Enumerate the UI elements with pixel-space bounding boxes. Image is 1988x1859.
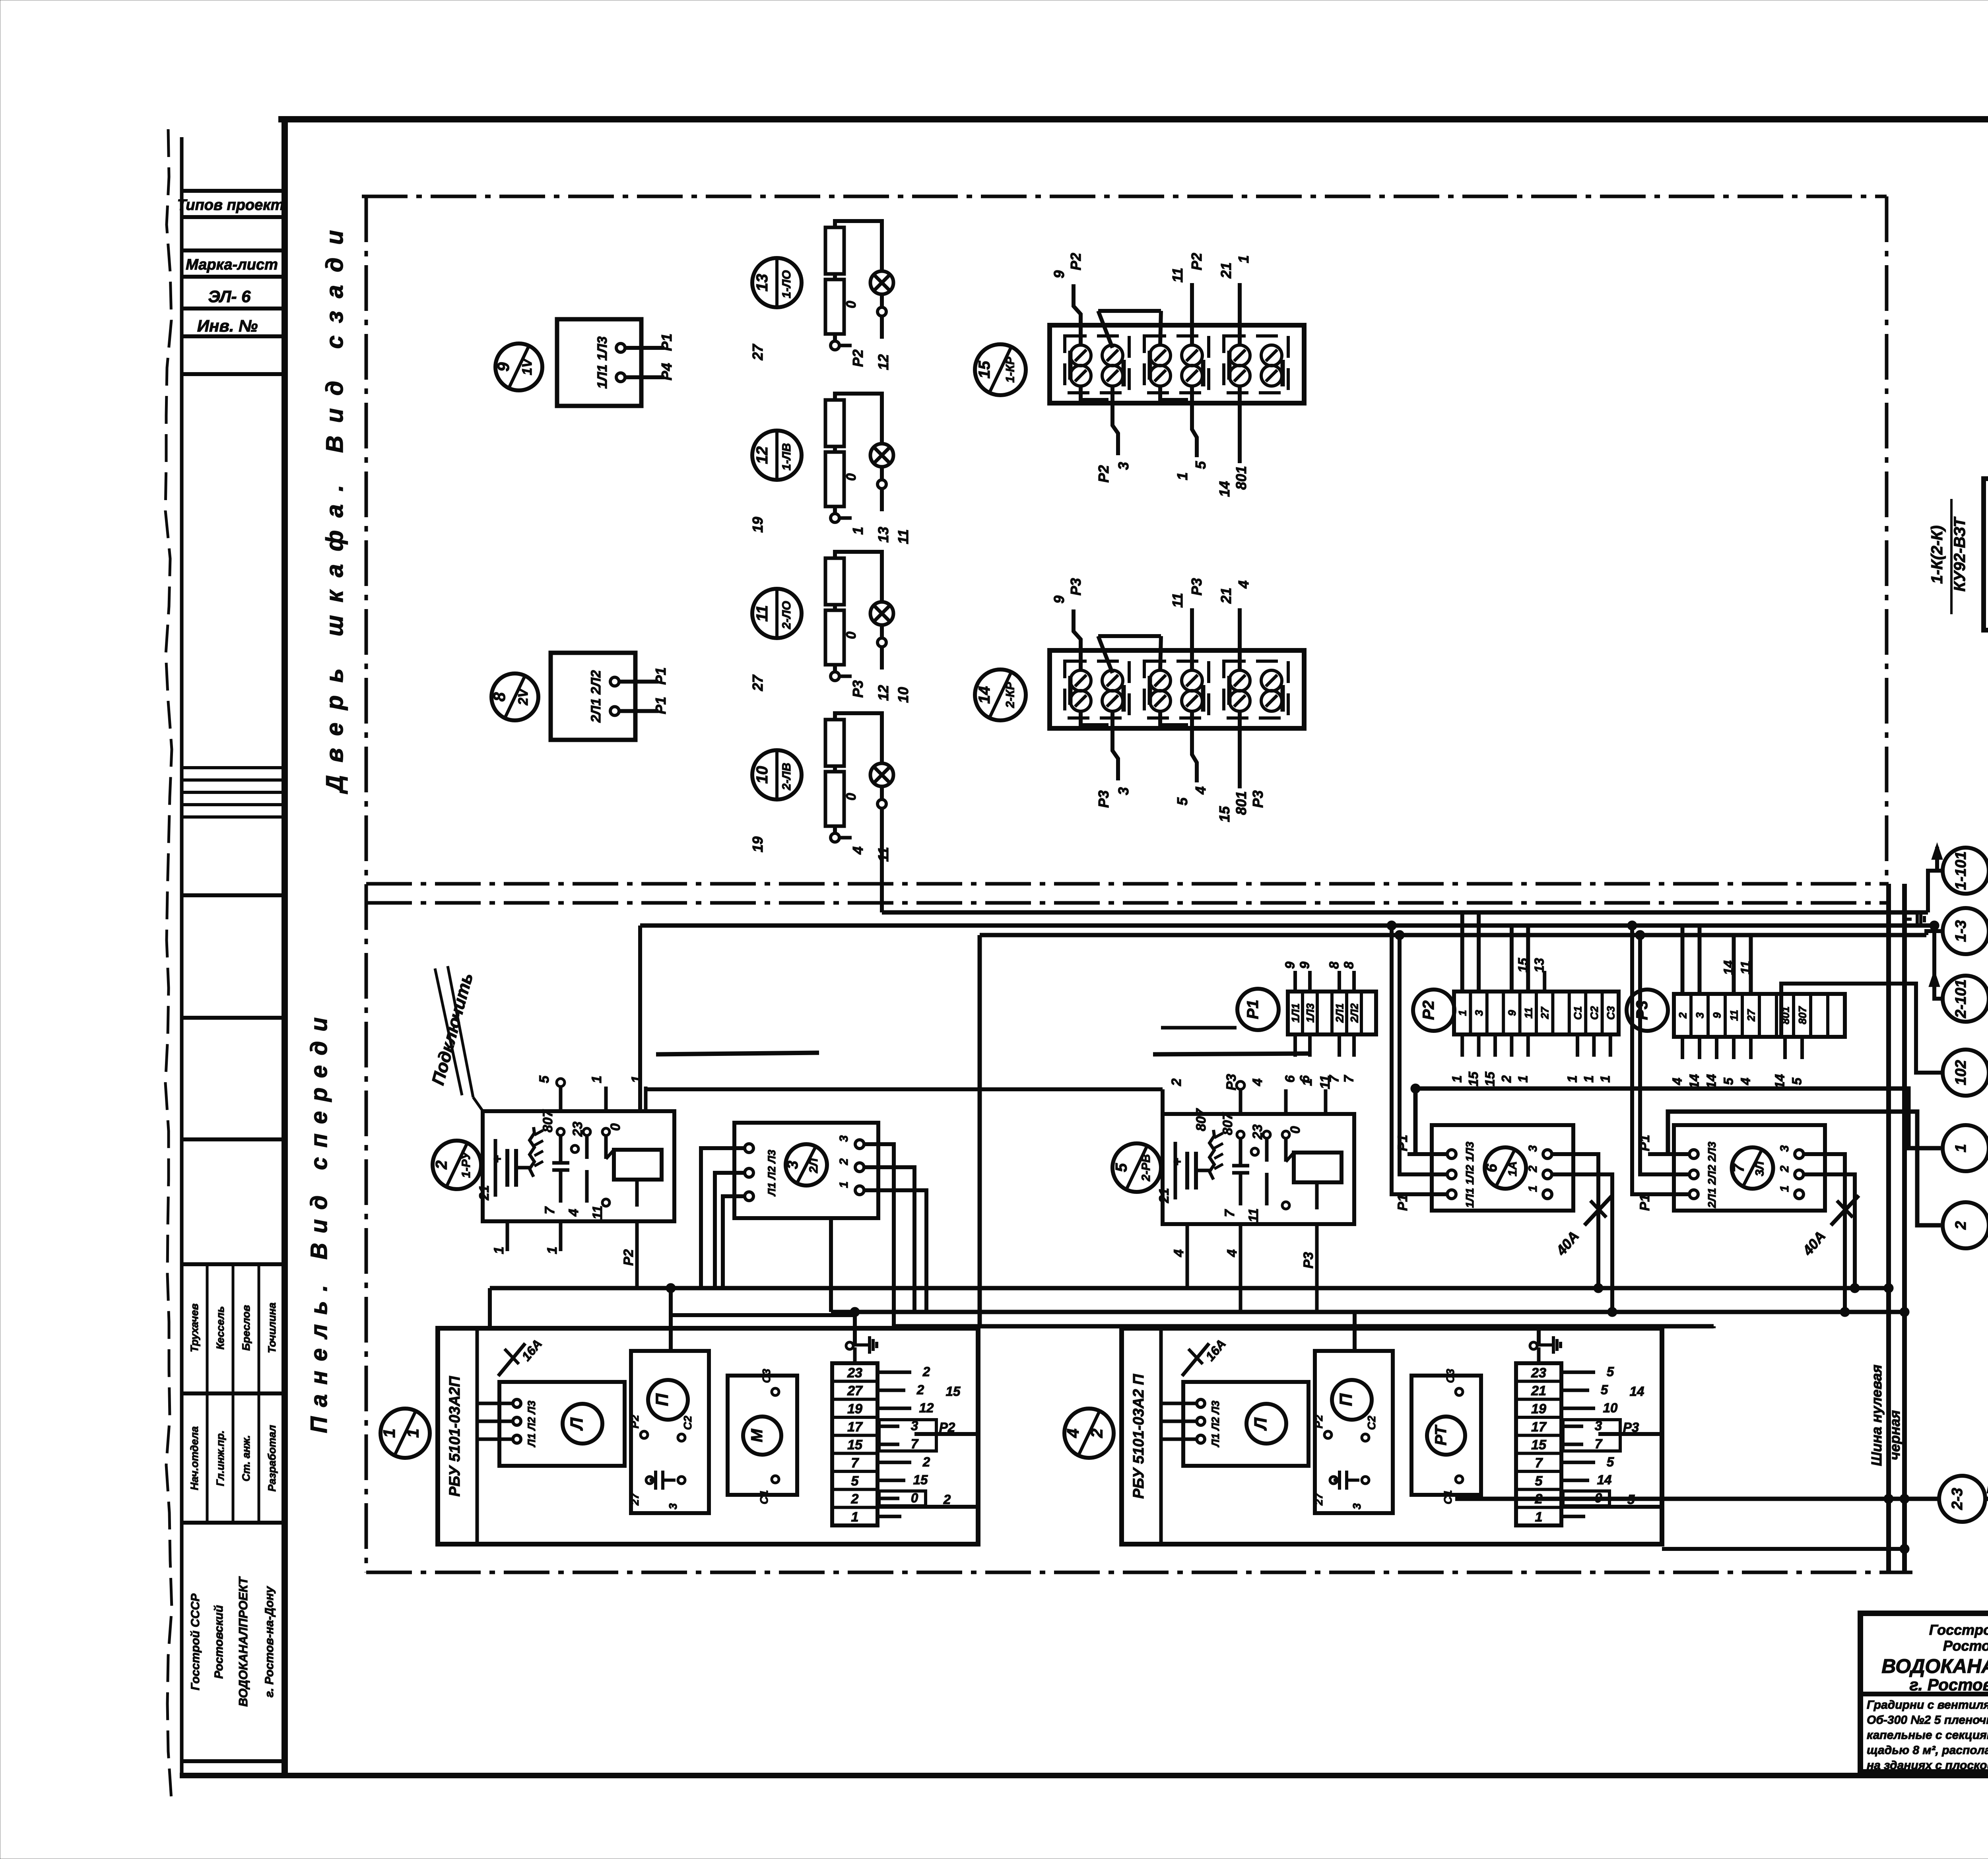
svg-text:С1: С1 — [1572, 1006, 1584, 1020]
svg-text:2: 2 — [1499, 1075, 1514, 1083]
svg-text:7: 7 — [1535, 1455, 1543, 1471]
svg-text:1: 1 — [589, 1076, 604, 1083]
svg-text:1Л1 1Л3: 1Л1 1Л3 — [595, 336, 610, 389]
svg-text:27: 27 — [1539, 1006, 1551, 1019]
svg-text:Р2: Р2 — [1420, 1001, 1437, 1020]
svg-text:12: 12 — [919, 1400, 934, 1415]
svg-text:3: 3 — [667, 1503, 679, 1510]
svg-text:щадью 8 м², располагаемые: щадью 8 м², располагаемые — [1867, 1744, 1988, 1757]
svg-text:П: П — [652, 1393, 672, 1406]
svg-text:9: 9 — [1711, 1012, 1723, 1018]
svg-text:23: 23 — [570, 1122, 585, 1137]
svg-text:Панель. Вид спереди: Панель. Вид спереди — [306, 1008, 332, 1433]
svg-text:1: 1 — [1565, 1075, 1580, 1083]
svg-text:23: 23 — [847, 1365, 862, 1380]
svg-text:5: 5 — [1192, 461, 1209, 469]
svg-text:3: 3 — [1778, 1145, 1791, 1152]
svg-text:РБУ 5101-03А2 П: РБУ 5101-03А2 П — [1130, 1374, 1147, 1499]
svg-text:12: 12 — [875, 354, 891, 370]
svg-text:черная: черная — [1887, 1410, 1903, 1460]
svg-text:27: 27 — [629, 1492, 641, 1506]
svg-text:801: 801 — [1233, 791, 1249, 815]
svg-text:С2: С2 — [681, 1416, 694, 1430]
svg-text:Ст. анж.: Ст. анж. — [240, 1435, 252, 1482]
svg-text:7: 7 — [1342, 1075, 1356, 1083]
svg-text:2: 2 — [1169, 1078, 1184, 1086]
svg-text:на зданиях с плоской кровлей: на зданиях с плоской кровлей — [1867, 1759, 1988, 1772]
svg-text:Шина нулевая: Шина нулевая — [1868, 1364, 1885, 1466]
svg-text:15: 15 — [913, 1473, 928, 1487]
svg-text:27: 27 — [749, 674, 766, 691]
svg-text:15: 15 — [976, 361, 993, 378]
svg-text:14: 14 — [1216, 481, 1233, 497]
svg-text:Р3: Р3 — [1301, 1252, 1316, 1269]
svg-text:5: 5 — [1607, 1364, 1614, 1379]
svg-text:2: 2 — [1526, 1165, 1540, 1172]
svg-text:2-101: 2-101 — [1953, 979, 1969, 1018]
svg-text:Р3: Р3 — [1250, 790, 1266, 808]
svg-text:0: 0 — [844, 473, 859, 481]
svg-text:3: 3 — [1473, 1010, 1485, 1016]
svg-text:15: 15 — [1216, 806, 1233, 822]
svg-text:2Л1: 2Л1 — [1334, 1003, 1346, 1023]
svg-text:Р2: Р2 — [850, 349, 866, 367]
svg-text:10: 10 — [895, 687, 911, 703]
svg-text:21: 21 — [1157, 1188, 1172, 1203]
svg-text:С2: С2 — [1365, 1416, 1378, 1430]
svg-text:3: 3 — [1115, 462, 1132, 470]
svg-text:Типов проект.: Типов проект. — [177, 197, 288, 213]
svg-text:8: 8 — [490, 692, 509, 702]
svg-text:ЭЛ- 6: ЭЛ- 6 — [208, 287, 251, 306]
svg-text:3: 3 — [784, 1160, 801, 1169]
svg-text:2: 2 — [943, 1492, 951, 1507]
svg-text:1: 1 — [380, 1428, 398, 1438]
svg-text:1: 1 — [491, 1247, 507, 1254]
svg-text:2-ЛВ: 2-ЛВ — [780, 763, 793, 791]
svg-text:5: 5 — [537, 1075, 552, 1083]
svg-text:17: 17 — [847, 1419, 863, 1434]
svg-text:2: 2 — [916, 1382, 924, 1397]
svg-text:5: 5 — [1601, 1382, 1608, 1397]
svg-text:Кессель: Кессель — [214, 1306, 226, 1349]
svg-text:Госстрой СССР: Госстрой СССР — [1929, 1622, 1988, 1638]
svg-text:0: 0 — [911, 1490, 918, 1505]
svg-text:1: 1 — [545, 1247, 560, 1254]
svg-text:1Л1 1Л2 1Л3: 1Л1 1Л2 1Л3 — [1464, 1141, 1476, 1208]
svg-text:9: 9 — [1506, 1010, 1518, 1016]
svg-text:С2: С2 — [1588, 1006, 1600, 1020]
svg-text:4: 4 — [1192, 786, 1209, 795]
svg-text:Марка-лист: Марка-лист — [186, 256, 278, 273]
svg-text:4: 4 — [850, 846, 866, 855]
svg-text:С3: С3 — [1444, 1369, 1456, 1383]
svg-text:ВОДОКАНАЛПРОЕКТ: ВОДОКАНАЛПРОЕКТ — [236, 1576, 250, 1707]
svg-text:1: 1 — [1778, 1186, 1791, 1192]
svg-text:3: 3 — [1526, 1145, 1540, 1152]
svg-text:19: 19 — [749, 517, 766, 533]
svg-text:4: 4 — [1225, 1249, 1240, 1257]
svg-text:1: 1 — [1174, 472, 1190, 480]
svg-text:9: 9 — [1051, 270, 1067, 278]
svg-text:1: 1 — [837, 1182, 850, 1188]
svg-text:0: 0 — [844, 793, 859, 800]
svg-text:3Л: 3Л — [1753, 1161, 1767, 1176]
svg-text:2: 2 — [922, 1364, 930, 1379]
svg-text:14: 14 — [1630, 1384, 1644, 1399]
svg-text:Р1: Р1 — [1244, 1000, 1262, 1019]
svg-text:Р4: Р4 — [658, 363, 675, 380]
svg-text:5: 5 — [1174, 797, 1190, 805]
svg-text:9: 9 — [1297, 961, 1312, 969]
svg-text:Р2: Р2 — [1068, 253, 1084, 270]
svg-text:Р3: Р3 — [1095, 790, 1112, 808]
svg-text:27: 27 — [1312, 1492, 1325, 1506]
svg-text:0: 0 — [844, 631, 859, 639]
svg-text:2V: 2V — [516, 687, 531, 706]
svg-text:7: 7 — [911, 1436, 919, 1451]
svg-text:9: 9 — [494, 362, 513, 372]
svg-text:1: 1 — [1450, 1075, 1464, 1083]
svg-text:19: 19 — [1531, 1401, 1546, 1417]
svg-text:1: 1 — [851, 1510, 859, 1525]
svg-text:0: 0 — [608, 1123, 623, 1131]
svg-text:807: 807 — [1194, 1108, 1209, 1131]
svg-text:0: 0 — [844, 301, 859, 308]
svg-text:2-ЛО: 2-ЛО — [780, 601, 793, 630]
svg-text:11: 11 — [1169, 268, 1186, 282]
svg-text:2: 2 — [1953, 1221, 1969, 1230]
svg-text:Р3: Р3 — [1188, 578, 1205, 596]
svg-text:г. Ростов-на-Дону: г. Ростов-на-Дону — [263, 1586, 276, 1698]
svg-text:21: 21 — [477, 1185, 492, 1201]
svg-text:С3: С3 — [1605, 1006, 1617, 1020]
svg-text:2Л1 2Л2: 2Л1 2Л2 — [588, 670, 604, 723]
svg-text:Л1 Л2 Л3: Л1 Л2 Л3 — [526, 1401, 538, 1448]
svg-text:807: 807 — [540, 1109, 555, 1133]
svg-text:3: 3 — [1694, 1012, 1706, 1018]
svg-text:7: 7 — [1731, 1163, 1747, 1172]
svg-text:1: 1 — [1235, 255, 1252, 263]
svg-text:12: 12 — [875, 685, 891, 701]
svg-text:Р2: Р2 — [629, 1415, 641, 1428]
svg-text:Р1: Р1 — [1637, 1194, 1652, 1211]
svg-text:1: 1 — [1598, 1075, 1612, 1083]
svg-text:2: 2 — [1778, 1165, 1791, 1172]
svg-text:4: 4 — [1670, 1078, 1685, 1085]
svg-text:г. Ростов-на-Дону: г. Ростов-на-Дону — [1910, 1675, 1988, 1694]
svg-text:ВОДОКАНАЛПРОЕКТ: ВОДОКАНАЛПРОЕКТ — [1881, 1655, 1988, 1677]
svg-text:11: 11 — [753, 605, 771, 622]
svg-text:2-3: 2-3 — [1949, 1488, 1966, 1510]
svg-text:2-РВ: 2-РВ — [1140, 1154, 1153, 1182]
svg-text:11: 11 — [590, 1205, 605, 1219]
svg-text:27: 27 — [847, 1384, 863, 1399]
svg-text:РТ: РТ — [1432, 1424, 1450, 1446]
svg-text:1Л1: 1Л1 — [1290, 1003, 1302, 1023]
svg-text:2: 2 — [837, 1158, 850, 1165]
svg-text:С1: С1 — [758, 1490, 770, 1504]
svg-text:5: 5 — [1535, 1473, 1543, 1488]
svg-text:1: 1 — [1581, 1075, 1596, 1083]
svg-text:Инв. №: Инв. № — [197, 316, 258, 335]
svg-text:5: 5 — [1112, 1163, 1130, 1172]
svg-text:1: 1 — [850, 527, 866, 535]
svg-text:10: 10 — [1603, 1400, 1618, 1415]
svg-text:Госстрой СССР: Госстрой СССР — [189, 1593, 202, 1690]
svg-text:Л: Л — [567, 1417, 586, 1431]
svg-text:14: 14 — [1597, 1473, 1612, 1487]
svg-text:3: 3 — [837, 1135, 850, 1142]
svg-text:19: 19 — [749, 836, 766, 852]
svg-text:Л1 Л2 Л3: Л1 Л2 Л3 — [1209, 1401, 1221, 1448]
svg-text:Нач.отдела: Нач.отдела — [188, 1426, 200, 1490]
svg-text:Гл.инж.пр.: Гл.инж.пр. — [214, 1430, 226, 1486]
svg-text:3: 3 — [1115, 787, 1132, 795]
svg-text:15: 15 — [1466, 1071, 1481, 1086]
svg-text:М: М — [748, 1428, 766, 1442]
svg-text:15: 15 — [1531, 1438, 1547, 1453]
svg-text:2: 2 — [922, 1454, 930, 1469]
svg-text:Р2: Р2 — [1095, 465, 1112, 483]
svg-text:Об-300 №2 5 пленочные и: Об-300 №2 5 пленочные и — [1867, 1713, 1988, 1727]
svg-text:Р1: Р1 — [652, 667, 669, 685]
svg-text:Точилина: Точилина — [266, 1302, 278, 1353]
svg-text:4: 4 — [1171, 1249, 1186, 1257]
svg-text:23: 23 — [1531, 1365, 1546, 1380]
svg-text:Р3: Р3 — [1224, 1074, 1239, 1091]
svg-text:8: 8 — [1342, 961, 1356, 969]
svg-text:Ростовский: Ростовский — [1943, 1638, 1988, 1654]
svg-text:3: 3 — [1351, 1503, 1363, 1510]
svg-text:Р1: Р1 — [1395, 1135, 1410, 1151]
svg-text:1: 1 — [1526, 1186, 1540, 1192]
svg-text:Р3: Р3 — [1068, 578, 1084, 596]
svg-text:1-РУ: 1-РУ — [460, 1151, 473, 1178]
svg-text:Трухачев: Трухачев — [188, 1304, 200, 1353]
svg-text:11: 11 — [1522, 1007, 1534, 1019]
svg-text:807: 807 — [1220, 1112, 1235, 1135]
svg-text:КУ92-ВЗТ: КУ92-ВЗТ — [1951, 516, 1969, 592]
svg-text:Р2: Р2 — [1188, 253, 1205, 270]
svg-text:2: 2 — [1087, 1428, 1106, 1438]
svg-text:Р1: Р1 — [652, 697, 669, 714]
svg-text:1А: 1А — [1506, 1161, 1519, 1176]
svg-text:21: 21 — [1218, 588, 1234, 604]
svg-text:801: 801 — [1233, 466, 1249, 490]
svg-text:15: 15 — [946, 1384, 961, 1399]
svg-text:4: 4 — [1738, 1078, 1753, 1085]
svg-text:1-3: 1-3 — [1953, 920, 1969, 942]
svg-text:9: 9 — [1051, 596, 1067, 603]
svg-text:807: 807 — [1797, 1005, 1809, 1024]
svg-text:Р2: Р2 — [621, 1249, 636, 1266]
svg-text:1: 1 — [1515, 1075, 1530, 1083]
svg-text:4: 4 — [566, 1209, 581, 1217]
svg-text:11: 11 — [895, 529, 911, 544]
svg-text:15: 15 — [847, 1438, 863, 1453]
svg-text:6: 6 — [1283, 1075, 1297, 1083]
svg-text:Р2: Р2 — [1312, 1415, 1325, 1428]
svg-text:102: 102 — [1953, 1060, 1969, 1085]
svg-text:14: 14 — [976, 686, 993, 704]
svg-text:1Л3: 1Л3 — [1305, 1003, 1316, 1023]
svg-text:9: 9 — [1283, 961, 1297, 969]
svg-text:13: 13 — [753, 274, 771, 292]
svg-text:Р1: Р1 — [1395, 1194, 1410, 1211]
svg-text:8: 8 — [1327, 961, 1342, 969]
svg-text:10: 10 — [753, 766, 771, 784]
svg-text:1-К(2-К): 1-К(2-К) — [1928, 526, 1946, 584]
svg-text:2Л2: 2Л2 — [1349, 1003, 1361, 1023]
svg-text:1-101: 1-101 — [1953, 851, 1969, 890]
svg-text:Градирни с вентиляторами: Градирни с вентиляторами — [1867, 1698, 1988, 1712]
svg-text:2: 2 — [851, 1492, 859, 1507]
svg-text:Бреслов: Бреслов — [240, 1305, 252, 1351]
svg-text:Л1 Л2 Л3: Л1 Л2 Л3 — [766, 1150, 778, 1197]
svg-text:11: 11 — [1246, 1208, 1261, 1222]
svg-text:5: 5 — [1721, 1077, 1736, 1085]
svg-text:5: 5 — [1790, 1077, 1804, 1085]
svg-text:Л: Л — [1251, 1417, 1270, 1431]
svg-text:1V: 1V — [520, 357, 535, 375]
svg-text:2: 2 — [1677, 1012, 1689, 1019]
svg-text:С3: С3 — [760, 1369, 773, 1383]
svg-text:П: П — [1336, 1393, 1356, 1406]
svg-text:7: 7 — [542, 1206, 557, 1214]
svg-text:+: + — [490, 1155, 505, 1163]
svg-text:6: 6 — [1483, 1164, 1500, 1172]
svg-text:1-ЛВ: 1-ЛВ — [780, 443, 793, 471]
svg-text:11: 11 — [1728, 1010, 1740, 1021]
svg-text:Разработал: Разработал — [266, 1425, 278, 1492]
svg-text:7: 7 — [1595, 1436, 1603, 1451]
svg-text:11: 11 — [1169, 593, 1186, 607]
svg-text:0: 0 — [1288, 1126, 1303, 1133]
svg-text:4: 4 — [1250, 1078, 1265, 1086]
svg-text:Ростовский: Ростовский — [212, 1605, 225, 1679]
svg-text:23: 23 — [1250, 1124, 1265, 1140]
svg-text:1: 1 — [1300, 1079, 1315, 1086]
svg-text:12: 12 — [753, 446, 771, 464]
svg-text:1-КР: 1-КР — [1004, 356, 1017, 382]
svg-text:17: 17 — [1531, 1419, 1547, 1434]
svg-text:Р1: Р1 — [658, 334, 675, 351]
svg-text:21: 21 — [1531, 1384, 1546, 1399]
svg-text:13: 13 — [1532, 958, 1547, 973]
svg-text:1: 1 — [403, 1428, 422, 1438]
svg-text:5: 5 — [851, 1473, 859, 1488]
svg-text:1: 1 — [1953, 1144, 1969, 1152]
svg-text:1: 1 — [1457, 1010, 1469, 1016]
svg-text:РБУ 5101-03А2П: РБУ 5101-03А2П — [447, 1376, 463, 1497]
svg-text:11: 11 — [1318, 1075, 1333, 1089]
svg-text:27: 27 — [1745, 1009, 1757, 1022]
svg-text:капельные с секциями пло-: капельные с секциями пло- — [1867, 1729, 1988, 1742]
svg-text:Дверь шкафа. Вид сзади: Дверь шкафа. Вид сзади — [321, 217, 348, 794]
svg-text:15: 15 — [1483, 1071, 1497, 1086]
svg-text:19: 19 — [847, 1401, 862, 1417]
svg-text:1-ЛО: 1-ЛО — [780, 270, 793, 299]
svg-text:2Л1 2Л2 2Л3: 2Л1 2Л2 2Л3 — [1706, 1141, 1718, 1208]
svg-text:2Л: 2Л — [807, 1158, 820, 1174]
svg-text:2: 2 — [433, 1160, 450, 1170]
svg-text:С1: С1 — [1442, 1490, 1454, 1504]
svg-text:7: 7 — [851, 1455, 860, 1471]
svg-text:5: 5 — [1607, 1454, 1614, 1469]
svg-text:13: 13 — [875, 527, 891, 543]
svg-text:21: 21 — [1218, 262, 1234, 279]
svg-text:4: 4 — [1064, 1428, 1082, 1438]
svg-text:+: + — [1170, 1158, 1185, 1166]
svg-text:4: 4 — [1235, 580, 1252, 589]
svg-text:7: 7 — [1222, 1209, 1237, 1217]
svg-text:27: 27 — [749, 343, 766, 361]
svg-text:1: 1 — [1535, 1510, 1543, 1525]
svg-text:2-КР: 2-КР — [1004, 681, 1017, 708]
svg-text:Р3: Р3 — [850, 680, 866, 698]
